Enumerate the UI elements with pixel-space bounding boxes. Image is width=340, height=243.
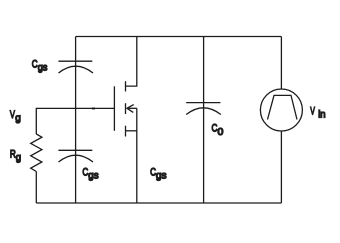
wire left capacitor branch vertical bbox=[75, 37, 77, 204]
label Vin bbox=[310, 105, 325, 121]
wire gate net: node Vg corner to MOSFET gate bbox=[36, 108, 114, 134]
svg-text:g: g bbox=[16, 152, 21, 163]
wire top bus bbox=[76, 36, 282, 38]
source Vin trapezoid waveform bbox=[268, 95, 298, 119]
label Cgs (channel, text only) bbox=[150, 166, 166, 181]
capacitor C0 straight plate bbox=[186, 102, 220, 104]
source Vin circle bbox=[260, 89, 302, 131]
resistor Rg bbox=[31, 134, 42, 172]
svg-text:in: in bbox=[318, 109, 325, 120]
wire top bus to Vin source bbox=[280, 37, 282, 90]
capacitor C0 curved plate bbox=[186, 108, 221, 115]
junction dot on gate wire bbox=[92, 108, 95, 110]
capacitor Cgs (lower) straight plate bbox=[58, 149, 92, 151]
capacitor Cgs (lower) curved plate bbox=[59, 155, 94, 162]
MOSFET Q1 bulk lead bbox=[127, 107, 137, 109]
wire MOSFET source/bulk to bottom bus bbox=[136, 108, 138, 203]
svg-text:g: g bbox=[15, 113, 21, 124]
wire bottom bus bbox=[36, 202, 281, 204]
MOSFET Q1 drain lead and wire to top bus bbox=[126, 37, 137, 87]
capacitor Cgs (top) straight plate bbox=[58, 60, 92, 62]
svg-text:gs: gs bbox=[88, 170, 98, 181]
wire resistor Rg to bottom bus bbox=[35, 172, 37, 204]
wire Vin source to bottom bus bbox=[280, 131, 282, 203]
wire C0 branch vertical bbox=[203, 37, 205, 204]
svg-text:gs: gs bbox=[156, 170, 167, 181]
svg-text:gs: gs bbox=[38, 62, 48, 73]
label Rg bbox=[10, 149, 21, 164]
MOSFET Q1 channel segment (bulk, middle) bbox=[125, 103, 127, 114]
svg-text:0: 0 bbox=[218, 127, 224, 138]
label C0 bbox=[212, 123, 224, 138]
label Vg bbox=[10, 109, 21, 124]
capacitor Cgs (top) curved plate bbox=[59, 66, 94, 73]
MOSFET Q1 gate bar bbox=[113, 86, 115, 131]
label Cgs (lower) bbox=[82, 166, 98, 181]
svg-text:V: V bbox=[310, 105, 315, 117]
MOSFET Q1 bulk arrow head bbox=[127, 105, 134, 113]
MOSFET Q1 channel segment (drain side) bbox=[125, 81, 127, 91]
MOSFET Q1 channel segment (source side) bbox=[125, 126, 127, 137]
svg-text:C: C bbox=[212, 123, 218, 136]
label Cgs (top) bbox=[32, 59, 48, 74]
MOSFET Q1 source lead bbox=[126, 130, 137, 132]
